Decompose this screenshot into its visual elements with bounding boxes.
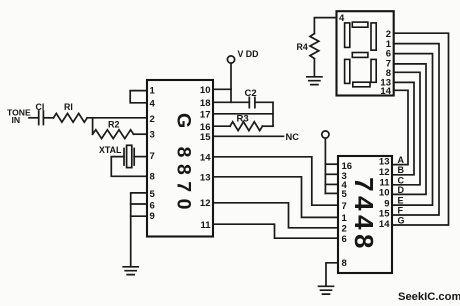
svg-text:5: 5: [150, 189, 156, 200]
segment g (middle): [352, 53, 368, 58]
wire right vertical joining pins 18 17 16: [272, 102, 274, 126]
wire segment C: U2 pin11 to DS1 pin8: [392, 72, 420, 185]
svg-text:10: 10: [379, 188, 390, 199]
wire pin17 to vertical: [213, 113, 273, 115]
svg-text:CI: CI: [36, 102, 45, 112]
svg-text:RI: RI: [64, 102, 73, 112]
wire pin15 to NC: [213, 135, 284, 137]
svg-text:12: 12: [200, 198, 211, 209]
wire segment B: U2 pin12 to DS1 pin13: [392, 82, 414, 174]
svg-text:5: 5: [342, 189, 348, 200]
svg-text:7: 7: [342, 201, 347, 212]
svg-text:6: 6: [150, 201, 155, 212]
svg-text:10: 10: [200, 85, 211, 96]
svg-text:15: 15: [200, 132, 211, 143]
svg-text:15: 15: [379, 209, 390, 220]
svg-text:E: E: [398, 196, 404, 206]
svg-text:1: 1: [150, 86, 156, 97]
wire crystal left plate loop to pin8: [111, 157, 147, 177]
svg-text:C2: C2: [245, 88, 257, 99]
svg-text:G: G: [398, 216, 405, 226]
wire U1 pin13 to U2 pin1: [213, 177, 338, 218]
crystal XTAL symbol: [124, 149, 134, 166]
svg-text:18: 18: [200, 98, 211, 109]
svg-text:R4: R4: [297, 42, 308, 52]
ground under U2 pin8: [319, 286, 334, 294]
segment b (top-right vertical): [371, 23, 376, 50]
svg-text:11: 11: [200, 220, 211, 231]
svg-text:8: 8: [342, 258, 347, 269]
svg-text:XTAL: XTAL: [99, 145, 122, 155]
svg-text:8: 8: [150, 172, 155, 183]
segment f (top-left vertical): [345, 23, 350, 48]
svg-text:6: 6: [342, 234, 347, 245]
wire segment E: U2 pin9 to DS1 pin6: [392, 54, 433, 206]
svg-text:4: 4: [150, 98, 156, 109]
capacitor C1 plates: [39, 111, 44, 125]
svg-text:17: 17: [200, 110, 211, 121]
wire segment F: U2 pin15 to DS1 pin1: [392, 44, 439, 215]
svg-text:B: B: [398, 165, 405, 175]
svg-text:13: 13: [200, 173, 211, 184]
wire R2 to pin3: [134, 133, 148, 135]
wire crystal right plate to pin7: [134, 156, 147, 158]
wire U2 pin5 rung: [325, 192, 338, 194]
wire VDD down to pin18 row: [230, 63, 232, 102]
power VDD terminal circle: [227, 56, 234, 63]
svg-text:13: 13: [379, 157, 390, 168]
wire R1 to pin2 of G8870: [87, 117, 147, 119]
svg-text:2: 2: [342, 224, 347, 235]
svg-text:R2: R2: [108, 120, 120, 130]
wire junction drop to R2: [92, 118, 94, 134]
power terminal circle above U2: [322, 131, 329, 138]
svg-text:7: 7: [150, 151, 155, 162]
wire segment D: U2 pin10 to DS1 pin7: [392, 64, 426, 195]
wire C2 to right vertical: [255, 101, 273, 103]
svg-text:14: 14: [200, 152, 211, 163]
svg-text:1: 1: [342, 213, 348, 224]
wire U1 pin14 to U2 pin7: [213, 157, 338, 205]
segment e (bottom-left vertical): [345, 59, 350, 83]
ground under R4: [307, 77, 322, 85]
wire U2 pin16 rung: [325, 163, 338, 165]
wire U1 pin11 to U2 pin6: [213, 224, 338, 238]
svg-text:IN: IN: [12, 115, 21, 125]
wire circle down tying U2 pins 16 3 4 5: [324, 138, 326, 193]
svg-text:14: 14: [379, 219, 390, 230]
wire pin6 rung: [131, 203, 147, 205]
svg-text:C: C: [398, 175, 405, 185]
capacitor C2 plates: [249, 97, 255, 107]
svg-text:14: 14: [380, 86, 391, 97]
svg-text:A: A: [398, 155, 405, 165]
wire tying pins 5 6 9: [131, 193, 147, 267]
wire U2 pin8 to ground: [326, 263, 338, 286]
ground under pins 5 6 9: [123, 267, 138, 275]
wire U1 pin12 to U2 pin2: [213, 203, 338, 228]
svg-text:V DD: V DD: [238, 49, 259, 59]
wire U2 pin4 rung: [325, 183, 338, 185]
wire tone-in to C1: [29, 117, 39, 119]
wire bracket tying pins 1 and 4: [130, 91, 147, 103]
segment c (bottom-right vertical): [371, 59, 376, 82]
wire pin9 rung: [131, 215, 147, 217]
svg-text:2: 2: [150, 114, 155, 125]
resistor R1: [54, 113, 88, 122]
svg-text:F: F: [398, 206, 404, 216]
wire C1 to R1: [43, 117, 53, 119]
svg-text:D: D: [398, 185, 405, 195]
svg-text:3: 3: [150, 130, 155, 141]
segment d (bottom): [353, 82, 370, 87]
svg-text:NC: NC: [286, 132, 300, 142]
resistor R3: [230, 122, 262, 131]
svg-text:7448: 7448: [349, 177, 379, 253]
resistor R4: [310, 34, 319, 59]
IC U2 7448 body: [338, 156, 392, 273]
svg-text:9: 9: [150, 211, 155, 222]
wire R4 to ground: [313, 59, 315, 77]
svg-text:G 8870: G 8870: [173, 113, 195, 216]
svg-text:16: 16: [200, 122, 211, 133]
IC U1 G8870 body: [147, 80, 213, 237]
segment a (top): [352, 22, 368, 27]
wire R3 to vertical: [262, 125, 273, 127]
display DS1 body: [337, 11, 394, 95]
wire segment A: U2 pin13 to DS1 pin14: [392, 90, 408, 164]
svg-text:12: 12: [379, 167, 390, 178]
wire U2 pin3 rung: [325, 173, 338, 175]
resistor R2: [93, 130, 134, 139]
wire pin10 to VDD line: [213, 88, 231, 90]
wire DS1 pin4 to R4: [314, 18, 336, 34]
wire pin18 to C2: [213, 101, 249, 103]
svg-text:SeekIC.com: SeekIC.com: [398, 291, 460, 303]
wire segment G: U2 pin14 to DS1 pin2: [392, 33, 449, 225]
wire pin16 to R3: [213, 125, 230, 127]
